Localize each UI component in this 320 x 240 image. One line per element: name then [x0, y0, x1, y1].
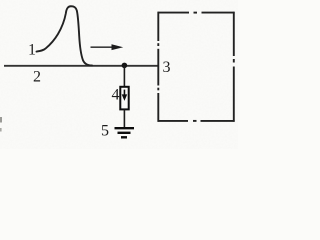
svg-text:3: 3: [163, 59, 171, 76]
svg-text:4: 4: [112, 87, 120, 104]
svg-text:1: 1: [28, 42, 36, 59]
svg-text:5: 5: [101, 123, 109, 140]
svg-text:2: 2: [33, 69, 41, 86]
